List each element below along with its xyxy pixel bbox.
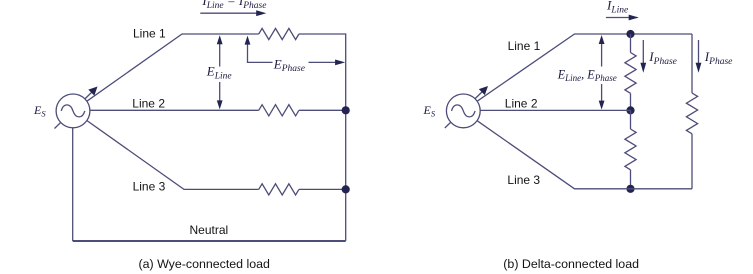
wire R3 to rail (a) [299, 188, 346, 190]
arrow through source ES (a) [55, 87, 98, 129]
arrow through source ES (b) [445, 86, 488, 128]
wire Line 3 (b): diagonal + horizontal [477, 121, 692, 189]
node dot line3/rail (a) [342, 185, 350, 193]
current arrow I Line (b) [606, 15, 639, 21]
svg-text:Line 2: Line 2 [132, 96, 165, 110]
resistor RB (b) between line2 and line3 [625, 129, 636, 170]
resistor R3 (a) [259, 184, 299, 195]
node dot line2 (b) [626, 106, 634, 114]
svg-text:(a) Wye-connected load: (a) Wye-connected load [139, 257, 271, 271]
source ES circle (b) [446, 94, 480, 128]
svg-text:Line 2: Line 2 [505, 97, 538, 111]
node dot line1/branch (b) [626, 30, 634, 38]
wire Line 3 (a): diagonal + horizontal [87, 121, 259, 190]
resistor R2 (a) [259, 105, 299, 116]
wire from R1 to right rail + right rail down (a) [299, 34, 346, 241]
svg-text:ES: ES [423, 103, 436, 118]
svg-text:(b) Delta-connected load: (b) Delta-connected load [503, 257, 639, 271]
wire lead line2 node to RB (b) [630, 110, 632, 129]
voltage arrow E Phase (a): elbow with up head and right head [245, 36, 346, 66]
wire RB to line3 (b) [630, 170, 632, 189]
svg-text:Line 1: Line 1 [508, 39, 541, 53]
right branch rail down (b) [691, 34, 693, 93]
wire Line 1 (b): diagonal + horizontal top [477, 34, 692, 101]
svg-text:Neutral: Neutral [190, 223, 229, 237]
svg-text:ES: ES [33, 103, 46, 118]
wire RA to line2 node (b) [630, 93, 632, 110]
current arrow I Phase left (b) [640, 40, 646, 73]
voltage arrow E Line, E Phase (b), double headed vertical [599, 35, 605, 110]
wire Line 1 (a): diagonal + horizontal to resistor [87, 34, 259, 101]
svg-text:ILine = IPhase: ILine = IPhase [201, 0, 266, 11]
svg-text:ELine, EPhase: ELine, EPhase [557, 67, 617, 83]
current arrow I Phase right (b) [696, 40, 702, 73]
node dot line2/rail (a) [342, 106, 350, 114]
wire Line 2 (b) [480, 109, 630, 111]
wire Line 2 (a) [90, 109, 259, 111]
wire RC to line3 (b) [691, 134, 693, 189]
sine wave inside source (b) [452, 105, 476, 117]
svg-text:EPhase: EPhase [273, 56, 305, 74]
sine wave inside source (a) [61, 105, 85, 117]
svg-text:ELine: ELine [206, 64, 232, 82]
resistor RC (b) right branch [686, 93, 697, 134]
svg-text:Line 3: Line 3 [507, 173, 540, 187]
voltage arrow E Line (a), double headed vertical [217, 35, 223, 109]
current arrow I Line = I Phase (a) [200, 10, 266, 16]
svg-text:ILine: ILine [606, 0, 628, 16]
wire source riser to neutral (a) [72, 128, 74, 241]
svg-text:Line 1: Line 1 [133, 27, 166, 41]
resistor RA (b) between line1 and line2 [625, 53, 636, 94]
source ES circle (a) [56, 94, 90, 128]
resistor R1 (a) [259, 28, 299, 39]
node dot line3 (b) [626, 185, 634, 193]
wire R2 to rail (a) [299, 109, 346, 111]
svg-text:IPhase: IPhase [704, 49, 733, 67]
neutral bottom rail (a) [73, 240, 346, 242]
svg-text:Line 3: Line 3 [133, 179, 166, 193]
svg-text:IPhase: IPhase [648, 49, 677, 67]
wire lead line1 to RA (b) [630, 34, 632, 53]
